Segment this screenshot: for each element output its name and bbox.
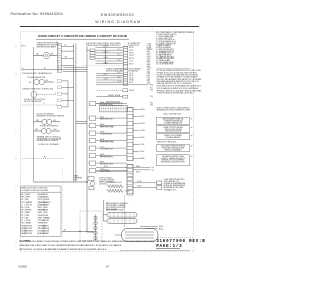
svg-text:BRUN: BRUN <box>44 210 48 212</box>
junction: ground feed <box>79 231 80 232</box>
wire: harness bus line A <box>73 44 75 182</box>
svg-text:P1-6: P1-6 <box>118 60 121 62</box>
svg-text:PRECAUCION: DESCONECTE LA CORR: PRECAUCION: DESCONECTE LA CORRIENTE ANTE… <box>20 244 123 247</box>
svg-text:BR-63: BR-63 <box>126 190 130 192</box>
svg-text:P1-11: P1-11 <box>118 81 122 83</box>
wire: box1 to hatched block <box>96 104 99 106</box>
connector pin: probe + <box>157 181 162 185</box>
motor: convection <box>31 92 37 98</box>
svg-text:BR-16: BR-16 <box>129 63 133 65</box>
svg-text:GRIS: GRIS <box>44 212 48 214</box>
label: J1 name <box>56 42 58 44</box>
svg-text:INTERRUPTOR SEGURO PUERTA: INTERRUPTOR SEGURO PUERTA <box>37 115 65 118</box>
svg-text:BR-37: BR-37 <box>100 162 104 164</box>
legend: notes paragraph <box>157 69 203 94</box>
label: bottom center text block <box>106 202 129 211</box>
wire: sensor row 3 <box>96 96 123 98</box>
wire: door lock switch out <box>52 121 60 123</box>
svg-text:DOOR LATCH SWITCH: DOOR LATCH SWITCH <box>40 125 59 128</box>
svg-text:1: 1 <box>32 29 33 31</box>
label: oven light switch text block <box>37 43 60 49</box>
wire: sensor row 2 (dashed) <box>97 89 123 91</box>
label: L1 at frame edge <box>22 68 24 70</box>
svg-text:SUPPLY CONNECTIONS / CONEXIONE: SUPPLY CONNECTIONS / CONEXIONES DE <box>157 107 190 109</box>
wire: EOC pin1 up to bus <box>87 49 90 51</box>
svg-text:WIRE COLOR CODE / CODIGO DE: WIRE COLOR CODE / CODIGO DE <box>22 188 48 190</box>
svg-text:BLEU: BLEU <box>44 207 48 209</box>
wire: harness bus line B <box>75 44 77 182</box>
svg-text:P9-7: P9-7 <box>147 81 150 83</box>
svg-text:P8-6: P8-6 <box>147 79 150 81</box>
svg-text:316077900 REV:B: 316077900 REV:B <box>156 240 205 244</box>
wire: horizontal run W2 <box>63 66 87 68</box>
svg-text:RD-67: RD-67 <box>136 172 140 174</box>
svg-text:NOMINAL A 21 C: NOMINAL A 21 C <box>164 188 178 191</box>
label: BK into lock switch <box>37 120 40 122</box>
label: broil feed 2 <box>159 228 164 230</box>
svg-text:ROUGE: ROUGE <box>44 199 50 201</box>
motor: latch motor bottom <box>90 181 94 185</box>
title block underline <box>156 248 180 250</box>
svg-text:DLB-OR: DLB-OR <box>147 49 154 51</box>
svg-text:N2: N2 <box>191 127 193 129</box>
svg-text:3: 3 <box>80 29 81 31</box>
legend separator line <box>157 68 191 70</box>
junction: center bus / bottom feed <box>86 181 87 182</box>
svg-text:2: 2 <box>56 29 57 31</box>
label: latch assembly text <box>99 176 115 185</box>
svg-text:OR-33: OR-33 <box>100 132 104 134</box>
connector pin: probe - <box>157 186 162 190</box>
wire: bus to latch <box>34 130 42 132</box>
wire: bottom horizontal from bus L1 to center bus <box>34 181 88 183</box>
labels: P1 wire codes <box>129 47 134 84</box>
schematic title underline <box>36 38 129 40</box>
svg-text:7: 7 <box>176 29 177 31</box>
label: door switch block <box>37 114 65 118</box>
svg-text:YL-15: YL-15 <box>129 61 133 63</box>
svg-text:OVEN CIRCUIT // CIRCUITO DE HO: OVEN CIRCUIT // CIRCUITO DE HORNO // CIR… <box>38 34 128 38</box>
switch: door lock (double circle) <box>42 119 52 124</box>
svg-text:P7-5: P7-5 <box>147 77 150 79</box>
label: EOC header rows <box>86 42 121 47</box>
svg-text:P1-4: P1-4 <box>118 54 121 56</box>
label: probe wire 2 <box>137 186 142 188</box>
terminal block boundary (dashed) <box>80 211 102 241</box>
svg-text:P3-1: P3-1 <box>147 70 150 72</box>
svg-text:ROSE: ROSE <box>44 215 48 217</box>
wire: sensor row 4a <box>100 102 123 104</box>
label: probe wire 1 <box>137 181 142 183</box>
svg-text:BK-42: BK-42 <box>140 116 144 118</box>
wire: bus to P5 pin row 2 <box>96 170 127 172</box>
svg-text:WHT-BLK: WHT-BLK <box>26 233 33 235</box>
connector pin: sensor row 2 <box>123 89 128 92</box>
label: sensor row 2 <box>129 90 134 92</box>
wire: bus junction to center pair 2 <box>76 123 87 125</box>
label: probe text block <box>164 179 186 192</box>
svg-text:WH-20: WH-20 <box>129 80 134 82</box>
note box 4 <box>157 145 193 152</box>
note box 2 <box>157 126 193 133</box>
label: sensor row 3 mid <box>108 94 120 97</box>
svg-text:ATTENTION: COUPER L'ALIMENTATI: ATTENTION: COUPER L'ALIMENTATION AVANT L… <box>20 248 108 251</box>
chassis dashed line <box>62 170 64 236</box>
footer page letter <box>106 265 110 269</box>
label: element resistor labels <box>107 181 123 184</box>
label: wire WH-61 <box>104 170 109 172</box>
switch: latch (double circle) <box>42 129 52 134</box>
svg-text:BK-66: BK-66 <box>136 166 140 168</box>
wire: ground feed into terminal block <box>62 231 94 233</box>
svg-text:WH-68: WH-68 <box>137 181 142 183</box>
label: coil 2 label <box>126 190 130 192</box>
motor: cooling fan (double circle) <box>34 79 45 84</box>
svg-text:J1: J1 <box>56 42 58 44</box>
label: BK at frame edge <box>22 45 26 47</box>
svg-text:BK-10: BK-10 <box>129 47 133 49</box>
label: harness text block <box>74 174 83 181</box>
svg-text:YL-7: YL-7 <box>147 62 150 64</box>
svg-text:PK-18: PK-18 <box>129 75 133 77</box>
label: P1 connector header <box>105 43 141 47</box>
svg-text:B-2: B-2 <box>152 169 154 171</box>
svg-text:CONVECTION MOTOR / CONVECCION: CONVECTION MOTOR / CONVECCION <box>22 89 54 91</box>
note box 3 <box>157 134 193 140</box>
wire: horizontal run W3 <box>63 71 87 73</box>
legend: header row <box>156 32 194 34</box>
svg-text:PK: PK <box>21 215 23 217</box>
wire: cooling fan to strip <box>45 81 54 83</box>
wire: P5 out row 1 <box>133 167 150 169</box>
svg-text:Publication No: 5995443204: Publication No: 5995443204 <box>11 12 63 16</box>
svg-text:RD-60: RD-60 <box>104 166 108 168</box>
wire: left vertical bus L1 <box>33 47 35 182</box>
label: P5 out row 2 <box>136 169 154 173</box>
svg-text:BU-27: BU-27 <box>104 74 108 76</box>
label: amp rating <box>29 81 32 84</box>
svg-text:BK-1: BK-1 <box>147 51 151 53</box>
wire color code table <box>21 186 62 237</box>
caution line 2 <box>20 244 123 247</box>
svg-text:P2-2: P2-2 <box>150 89 153 91</box>
connector P5 upper output wires with labels <box>133 109 145 160</box>
bottom frame segment <box>120 250 190 252</box>
svg-text:BLUE: BLUE <box>26 207 30 209</box>
connector P5 upper strip <box>127 108 133 161</box>
svg-text:YL-46: YL-46 <box>140 144 144 146</box>
label: broil feed 1 <box>159 226 163 228</box>
caution line 3 <box>20 248 108 251</box>
svg-text:P5-3: P5-3 <box>147 73 150 75</box>
svg-text:VT: VT <box>21 220 23 222</box>
wire: horizontal run W1 <box>21 68 87 70</box>
legend: component list <box>156 34 177 66</box>
svg-text:GY-3: GY-3 <box>147 55 151 57</box>
svg-text:OR-13: OR-13 <box>129 55 133 57</box>
connector pin: sensor row 3 <box>123 95 128 98</box>
svg-text:WH-29: WH-29 <box>129 90 134 92</box>
svg-text:WIRING DIAGRAM: WIRING DIAGRAM <box>95 20 141 24</box>
svg-text:WH-32: WH-32 <box>100 124 105 126</box>
svg-text:WH-41: WH-41 <box>140 109 145 111</box>
svg-text:BU-14: BU-14 <box>129 58 133 60</box>
title block dashed separators <box>158 238 194 252</box>
label: sensor row 1 <box>150 84 154 86</box>
resistor: element coil 2 <box>107 189 124 192</box>
svg-text:P12: P12 <box>74 179 77 181</box>
svg-text:BK: BK <box>65 45 67 47</box>
wire: to probe pin 2 <box>133 186 157 188</box>
label: thermostat text block <box>37 135 63 142</box>
label: thermostat extra row <box>38 143 60 146</box>
connector P5 lower strip <box>127 165 133 196</box>
footer doc code <box>19 264 28 268</box>
svg-text:P2-5: P2-5 <box>150 104 153 106</box>
svg-text:CONJUNTO SEGURO: CONJUNTO SEGURO <box>99 179 115 181</box>
svg-text:TN: TN <box>21 217 23 219</box>
svg-text:BK: BK <box>21 194 23 196</box>
svg-text:YELLOW: YELLOW <box>26 204 33 206</box>
labels: on fan-out wires <box>104 46 109 81</box>
svg-text:N1: N1 <box>191 119 193 121</box>
lamp: oven light <box>43 52 49 58</box>
wire: fan-out harness wires <box>96 48 124 83</box>
svg-text:COLORES / CODE DES COULEURS: COLORES / CODE DES COULEURS <box>22 190 49 192</box>
svg-text:MOTOR DEL SEGURO: MOTOR DEL SEGURO <box>24 101 42 103</box>
label: GN wire <box>64 230 67 232</box>
labels: P1 terminal names <box>147 44 154 85</box>
svg-text:ROUGE: ROUGE <box>44 231 50 233</box>
note box 5 <box>157 155 193 166</box>
label: between boxes <box>157 141 176 144</box>
svg-text:3: 3 <box>55 93 56 95</box>
label: wire WH <box>51 54 55 56</box>
svg-text:RD-31: RD-31 <box>100 117 104 119</box>
schematic border frame (dotted) <box>21 32 194 252</box>
svg-text:BU: BU <box>21 207 23 209</box>
svg-text:B1: B1 <box>44 157 46 159</box>
svg-text:GY-47: GY-47 <box>140 151 144 153</box>
module: latch switch box <box>89 187 94 190</box>
svg-text:WHITE: WHITE <box>26 197 31 199</box>
svg-text:BU-34: BU-34 <box>100 139 104 141</box>
svg-text:N3: N3 <box>191 135 193 137</box>
wire: bake element stubs <box>104 200 108 221</box>
label: WH out of latch <box>54 129 58 131</box>
svg-text:2: 2 <box>54 82 55 84</box>
svg-text:BU-45: BU-45 <box>140 137 144 139</box>
schematic title OVEN CIRCUIT <box>38 34 128 38</box>
page header rule <box>20 26 199 27</box>
labels: right of sensor rows <box>150 87 153 106</box>
svg-text:BK-21: BK-21 <box>129 82 133 84</box>
svg-text:GRIS: GRIS <box>38 212 42 214</box>
connector P10 hatched block <box>100 106 128 112</box>
wire: sensor row 4b <box>100 104 123 106</box>
svg-text:EW30EW55GS0: EW30EW55GS0 <box>101 13 134 17</box>
wire: strip drop to broil <box>124 196 126 229</box>
label: wire RD-60 <box>104 166 108 168</box>
svg-text:WH-12: WH-12 <box>129 53 134 55</box>
svg-text:BK-23: BK-23 <box>104 46 108 48</box>
label: latch text <box>40 125 59 128</box>
relay pins on EOC <box>90 49 95 60</box>
svg-text:WH-25: WH-25 <box>104 57 109 59</box>
svg-text:P2-3: P2-3 <box>150 96 153 98</box>
label: convection motor <box>22 89 54 91</box>
svg-text:GRN-YEL: GRN-YEL <box>26 225 33 227</box>
svg-text:BU-6: BU-6 <box>147 60 151 62</box>
svg-text:PK-9: PK-9 <box>147 66 151 68</box>
svg-text:BLK-WHT: BLK-WHT <box>26 228 33 230</box>
note box 1 <box>157 118 193 125</box>
svg-text:DE CUISSON 2500W 240V: DE CUISSON 2500W 240V <box>106 207 127 209</box>
wire: dashed link from convection motor <box>37 94 56 96</box>
wire: fanout left rail <box>105 48 107 65</box>
wire: bus to door lock switch <box>34 121 42 123</box>
svg-text:WH-61: WH-61 <box>104 170 109 172</box>
label: P5 out row 1 <box>136 166 154 169</box>
svg-text:N5: N5 <box>191 156 193 158</box>
wire: oven light to connector <box>50 55 58 57</box>
svg-text:P1 CONNECTOR: P1 CONNECTOR <box>128 43 141 45</box>
svg-text:DISCONNECT BEFORE SERVICE: DISCONNECT BEFORE SERVICE <box>161 146 185 148</box>
wire: broil feed 2 <box>146 228 158 230</box>
wire: to probe pin 1 <box>133 182 157 184</box>
element: bake element bars <box>107 213 137 224</box>
label: cooling fan wires <box>46 80 55 84</box>
svg-text:CAUTION:: CAUTION: <box>20 240 31 243</box>
svg-text:WH-69: WH-69 <box>137 186 142 188</box>
svg-text:VERDE: VERDE <box>38 223 43 225</box>
wire: bus to P5 pin row 1 <box>96 167 127 169</box>
svg-text:B-1: B-1 <box>152 167 154 169</box>
label: note box intro rows <box>157 107 191 115</box>
svg-text:OR-5: OR-5 <box>147 58 151 60</box>
element: broil element body <box>122 229 159 242</box>
wire: broil feed 1 <box>140 225 158 227</box>
wire: dashed row <box>22 104 62 106</box>
svg-text:OR-26: OR-26 <box>104 62 108 64</box>
frame column tick marks <box>32 29 177 31</box>
svg-text:OR-44: OR-44 <box>140 130 145 132</box>
label: convection out <box>55 93 56 95</box>
svg-text:TN-10: TN-10 <box>147 68 151 70</box>
svg-text:WH: WH <box>21 197 24 199</box>
svg-text:LF: LF <box>106 265 110 269</box>
svg-text:RD-11: RD-11 <box>129 50 133 52</box>
label: row under W1 <box>22 72 52 75</box>
wire: J2 risers to bus <box>68 81 74 107</box>
page header: publication number <box>11 12 63 16</box>
wire: center bus to terminal block <box>87 231 94 233</box>
caution line 1 <box>20 240 156 243</box>
svg-text:WH-4: WH-4 <box>147 57 151 59</box>
svg-text:L1: L1 <box>22 68 24 70</box>
wire: latch out <box>51 130 60 132</box>
label: OR out of lock switch <box>53 120 56 122</box>
resistor: element coil 1 <box>107 185 124 188</box>
svg-text:BROWN: BROWN <box>26 210 32 212</box>
svg-text:GREEN: GREEN <box>26 223 31 225</box>
label: B1 on thermal run <box>44 157 46 159</box>
label: sensor row 4 <box>106 100 120 103</box>
connector J1 pin numbers <box>58 44 60 72</box>
svg-text:COOLING FAN MOTOR: COOLING FAN MOTOR <box>27 76 46 79</box>
svg-text:P6-4: P6-4 <box>147 75 150 77</box>
title block part number <box>156 240 205 244</box>
svg-text:VIOLET: VIOLET <box>44 220 49 222</box>
svg-text:BK L1: BK L1 <box>22 45 26 47</box>
svg-text:P1-9: P1-9 <box>118 76 121 78</box>
label: wire BK <box>37 54 40 56</box>
svg-text:17. DOOR SWITCHES: 17. DOOR SWITCHES <box>156 64 174 66</box>
wire: broil left stub <box>115 234 122 236</box>
label: B1 above W1 <box>44 68 46 70</box>
svg-text:RD-2: RD-2 <box>147 53 151 55</box>
svg-text:NOIR-B: NOIR-B <box>44 228 49 230</box>
svg-text:P2-1: P2-1 <box>150 87 153 89</box>
terminal block contacts <box>94 215 97 241</box>
wire: bus to oven light <box>34 55 44 57</box>
wire: P5 out row 2 <box>133 169 150 171</box>
svg-text:RED-WHT: RED-WHT <box>26 231 33 233</box>
labels: on fan-out wires right <box>118 49 122 83</box>
svg-text:120V 60HZ SUPPLY / ALIMENTACIO: 120V 60HZ SUPPLY / ALIMENTACION <box>22 72 52 75</box>
label: BK on J1 wire <box>65 45 67 47</box>
label: WH on J1 wire <box>65 57 67 59</box>
wire: J1 pin10 to bus <box>61 65 73 67</box>
svg-text:VERT: VERT <box>44 223 48 225</box>
wire: thermal switch dashed run <box>22 158 64 160</box>
svg-text:GROUNDING INSTRUCTIONS:: GROUNDING INSTRUCTIONS: <box>162 156 185 158</box>
wire: center vertical bus <box>86 47 88 233</box>
label: text rows mid fanout <box>106 67 141 72</box>
svg-text:60508: 60508 <box>19 264 28 268</box>
svg-text:B1: B1 <box>44 68 46 70</box>
svg-text:GY-36: GY-36 <box>100 154 104 156</box>
wire: J1 pin2 to bus <box>61 45 73 47</box>
svg-text:DISCONNECT ELECTRICAL POWER SU: DISCONNECT ELECTRICAL POWER SUPPLY BEFOR… <box>31 240 156 243</box>
title block page number <box>156 244 182 249</box>
svg-text:GY: GY <box>21 212 23 214</box>
svg-text:GROUNDING CONDUCTOR ONLY: GROUNDING CONDUCTOR ONLY <box>161 162 186 164</box>
wire: sensor row 1 <box>96 84 148 86</box>
svg-text:WH: WH <box>65 57 67 59</box>
svg-text:GY-28: GY-28 <box>104 79 108 81</box>
svg-text:VIOLET: VIOLET <box>26 220 31 222</box>
svg-text:THERMOSTAT DE SURETE: THERMOSTAT DE SURETE <box>37 139 59 142</box>
svg-text:P1-2: P1-2 <box>118 49 121 51</box>
connector J1 body with pins <box>57 44 61 73</box>
svg-text:BK-30: BK-30 <box>100 102 104 104</box>
wire: dotted section divider <box>82 64 128 66</box>
wire: J1 pin4 to bus <box>61 50 73 52</box>
page header: model number <box>101 13 134 17</box>
svg-text:BK-64: BK-64 <box>159 226 163 228</box>
svg-text:RD-24: RD-24 <box>104 51 108 53</box>
svg-text:CONECTOR P1: CONECTOR P1 <box>128 45 139 47</box>
svg-text:P4-2: P4-2 <box>147 71 150 73</box>
svg-text:YL: YL <box>21 204 23 206</box>
svg-text:N4: N4 <box>191 146 193 148</box>
page header: document title WIRING DIAGRAM <box>95 20 141 24</box>
module: door lock assembly box <box>88 177 94 181</box>
svg-text:GN: GN <box>21 223 23 225</box>
svg-text:CLOSE 120F / CIERRA 49C: CLOSE 120F / CIERRA 49C <box>38 143 60 146</box>
svg-text:BR-48: BR-48 <box>140 158 144 160</box>
